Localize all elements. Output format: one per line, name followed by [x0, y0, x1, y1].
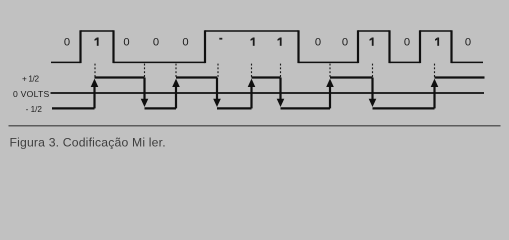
dashed bit-boundary marker 7: [329, 64, 331, 77]
Miller transition down 3: [279, 78, 281, 102]
Miller signal segment -1/2 (g): [281, 107, 331, 109]
Miller signal segment +1/2 (j): [435, 76, 485, 78]
bit label 1 (11): [370, 38, 374, 46]
dashed bit-boundary marker 5: [251, 64, 253, 77]
Miller transition up 1: [93, 83, 95, 108]
Miller signal segment -1/2 (a): [52, 107, 95, 109]
Miller signal segment +1/2 (b): [95, 76, 145, 78]
bit label 1 (2): [95, 38, 99, 46]
svg-text:0: 0: [342, 37, 348, 49]
svg-text:0 VOLTS: 0 VOLTS: [13, 89, 49, 99]
svg-text:0: 0: [465, 37, 471, 49]
Miller signal segment +1/2 (d): [176, 76, 217, 78]
dashed bit-boundary marker 8: [372, 64, 374, 77]
Miller transition down 2: [216, 78, 218, 102]
svg-text:0: 0: [153, 37, 159, 49]
svg-text:0: 0: [315, 37, 321, 49]
NRZ data waveform horizontals (top): [51, 31, 483, 62]
Miller transition up 5: [433, 83, 435, 108]
svg-text:0: 0: [182, 37, 188, 49]
svg-text:Figura 3. Codificação Mi ler.: Figura 3. Codificação Mi ler.: [10, 135, 166, 149]
Miller transition down 1: [143, 78, 145, 102]
Miller signal segment -1/2 (e): [217, 107, 252, 109]
Miller transition up 3: [250, 83, 252, 108]
svg-text:+ 1/2: + 1/2: [22, 75, 39, 84]
Miller transition up 2: [175, 83, 177, 108]
NRZ data waveform verticals (bit edges): [81, 30, 452, 63]
svg-text:0: 0: [404, 37, 410, 49]
Miller transition down 4: [371, 78, 373, 102]
Miller signal segment -1/2 (i): [373, 107, 435, 109]
Miller transition up 4: [329, 83, 331, 108]
Miller signal segment +1/2 (h): [330, 76, 373, 78]
bottom separator rule: [9, 125, 501, 127]
svg-text:0: 0: [64, 37, 70, 49]
Miller signal segment -1/2 (c): [145, 107, 177, 109]
zero-volt axis line: [51, 92, 485, 94]
svg-text:- 1/2: - 1/2: [26, 105, 43, 114]
dashed bit-boundary marker 3: [175, 64, 177, 77]
dashed bit-boundary marker 6: [280, 64, 282, 77]
bit label 1 (8): [278, 38, 282, 46]
dashed bit-boundary marker 1: [94, 64, 96, 77]
bit label 1 degraded to dot (6): [219, 38, 222, 40]
dashed bit-boundary marker 2: [144, 64, 146, 77]
bit label 1 (13): [435, 38, 439, 46]
svg-text:0: 0: [123, 37, 129, 49]
dashed bit-boundary marker 4: [217, 64, 219, 77]
bit label 1 (7): [251, 38, 255, 46]
Miller signal segment +1/2 (f): [252, 76, 281, 78]
dashed bit-boundary marker 9: [434, 64, 436, 77]
